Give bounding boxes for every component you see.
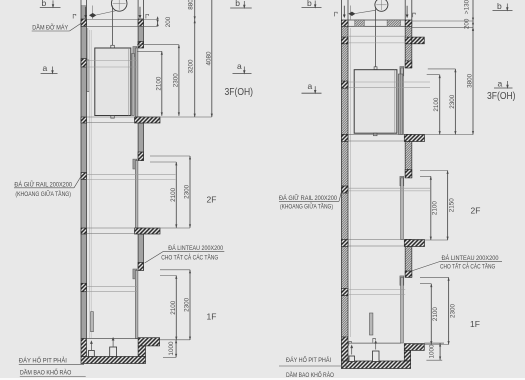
level arrow on left wall [84, 7, 87, 19]
reference lines 3F rail level (right drawing) [348, 82, 430, 87]
2F slab top extension (right drawing) [412, 239, 448, 241]
counterweight [87, 60, 89, 92]
svg-text:2300: 2300 [449, 94, 456, 109]
dimension 2100 (2F right drawing) [430, 176, 439, 240]
3F slab block on left wall [81, 117, 87, 123]
1F door linteau block [138, 263, 143, 271]
guide rail in pit (right drawing) [370, 313, 373, 335]
svg-text:2F: 2F [471, 206, 481, 216]
dimension 3200 and 880 overall [188, 0, 196, 117]
buffer arrow 2 (right drawing) [374, 340, 377, 350]
reference lines below beam (right drawing) [348, 36, 405, 43]
elevator cab (right drawing) [354, 70, 397, 134]
2F floor slab (right drawing) [404, 240, 424, 247]
dimension 2100 (2F left drawing) [170, 162, 178, 228]
2F landing door (left drawing) [133, 159, 138, 228]
buffer 1 (left drawing) [89, 351, 95, 357]
svg-text:2F: 2F [207, 195, 217, 205]
machine beam top line [87, 19, 158, 21]
pit right wall [138, 346, 145, 357]
hoist point line (right drawing) [350, 6, 352, 21]
svg-text:2300: 2300 [183, 297, 190, 312]
2F slab lines across shaft (left drawing) [87, 228, 135, 234]
svg-text:b: b [497, 1, 502, 11]
3F landing door (right drawing) [400, 67, 404, 135]
pit right wall (right drawing) [404, 350, 410, 361]
svg-text:ĐÁ GIỮ RAIL 200X200: ĐÁ GIỮ RAIL 200X200 [14, 181, 72, 188]
svg-text:ĐÁ LINTEAU 200X200: ĐÁ LINTEAU 200X200 [442, 255, 499, 262]
3F slab lines across shaft (right drawing) [348, 134, 404, 141]
pit bottom extension (right drawing) [426, 359, 442, 361]
anchor line 2100 (1F) [160, 275, 176, 277]
section marker a right of right drawing [494, 78, 513, 89]
leader diamond to pulley [96, 11, 117, 16]
buffer 2 (right drawing) [373, 351, 380, 362]
reference lines 3F rail level [87, 61, 139, 68]
reference lines 1F rail level (right drawing) [348, 290, 405, 295]
level arrow on right wall [139, 7, 142, 19]
3F landing door (left drawing) [133, 47, 138, 118]
pulley sheave (right drawing) [375, 0, 388, 11]
label DAM DO MAY [32, 21, 81, 31]
pit floor slab (left drawing) [81, 357, 146, 364]
rail clip symbol right [146, 14, 149, 18]
rail clip symbol left [73, 14, 76, 18]
3F floor slab [135, 117, 161, 123]
section marker b left of left drawing [40, 0, 61, 8]
counterweight guide line [87, 28, 89, 60]
left shaft wall (left drawing) [81, 0, 87, 339]
anchor line 2300 (3F) [137, 44, 179, 46]
svg-text:4080: 4080 [205, 51, 212, 66]
svg-text:(KHOANG GIỮA TẦNG): (KHOANG GIỮA TẦNG) [15, 191, 71, 198]
dimension 3800 (overall right drawing) [466, 27, 474, 134]
reference lines 1F rail level [87, 287, 139, 292]
pit left wall (right drawing) [341, 337, 348, 361]
right shaft wall (left drawing) [138, 0, 143, 271]
2F slab block on right wall (right drawing) [405, 240, 412, 247]
rail support block (1F mid) on left wall [81, 283, 87, 291]
section marker b right of right drawing [493, 1, 513, 12]
pulley sheave (left drawing) [111, 0, 127, 11]
machine beam (right drawing) [348, 20, 405, 26]
svg-text:CHO TẤT CẢ CÁC TẦNG: CHO TẤT CẢ CÁC TẦNG [440, 263, 495, 270]
guide rails beside cab (right drawing) [398, 74, 403, 134]
support bracket (right drawing) [412, 37, 425, 44]
pit ledge (left drawing) [138, 338, 160, 346]
label DAM BAO KHO RAO (left drawing) [20, 367, 86, 377]
1F floor line across pit [87, 338, 139, 340]
cab hook [111, 45, 115, 48]
anchor line 2150 (2F right drawing) [420, 170, 448, 172]
label DAY HO PIT PHAI (right drawing) [279, 354, 347, 366]
buffer arrow 2 [112, 337, 115, 347]
dimension 4080 (overall left drawing) [205, 0, 213, 117]
cab bottom tab (right drawing) [374, 133, 378, 136]
label DA GIU RAIL 200X200 (right drawing) [279, 190, 342, 211]
section marker a right of left drawing [233, 61, 252, 75]
hoist cable (right drawing) [375, 7, 377, 67]
guide rail line (right drawing) [349, 28, 351, 337]
anchor line 2100 (2F right drawing) [420, 175, 431, 177]
guide rail in pit [91, 312, 94, 332]
svg-text:CHO TẤT CẢ CÁC TẦNG: CHO TẤT CẢ CÁC TẦNG [161, 254, 218, 261]
anchor line 2300 (2F) [150, 155, 190, 157]
left shaft wall (right drawing) [341, 0, 348, 337]
2F slab block on right wall [138, 228, 143, 234]
hoist point diamond [89, 13, 96, 18]
svg-text:200: 200 [165, 16, 172, 27]
right shaft wall (right drawing) [405, 0, 412, 277]
svg-text:3F(OH): 3F(OH) [487, 91, 516, 102]
cab hook (right drawing) [374, 67, 377, 70]
buffer r mark 2 [373, 339, 376, 343]
svg-text:b: b [42, 0, 47, 8]
2F slab lines across shaft (right drawing) [348, 240, 404, 247]
section marker a left of right drawing [302, 81, 322, 94]
3F slab block on left wall (right drawing) [341, 134, 348, 141]
buffer arrow 1 [90, 340, 93, 350]
buffer arrow 1 (right drawing) [350, 345, 353, 355]
svg-text:2100: 2100 [432, 307, 439, 322]
section marker b right of left drawing [230, 0, 252, 9]
dimension 1000 pit depth (left drawing) [168, 340, 177, 358]
label DAM BAO KHO RAO (right drawing) [286, 369, 349, 379]
svg-text:a: a [237, 61, 242, 71]
hoist cable [111, 6, 113, 46]
label DA LINTEAU 200X200 (right drawing) [412, 255, 503, 271]
label DA LINTEAU 200X200 (left drawing) [145, 245, 225, 263]
svg-text:3200: 3200 [188, 59, 195, 74]
dimension 2100 (3F left drawing) [155, 51, 163, 116]
rail support block (3F mid, right drawing) [341, 81, 348, 88]
label DA GIU RAIL 200X200 (KHOANG GIUA TANG) [14, 176, 81, 198]
svg-text:a: a [498, 78, 503, 88]
rail support block (3F mid) on left wall [81, 59, 87, 67]
rail clip symbol left (right drawing) [335, 12, 338, 16]
3F slab top extension (right drawing) [412, 134, 473, 136]
svg-text:2100: 2100 [170, 187, 177, 202]
anchor line 2300 (1F) [160, 269, 190, 271]
machine beam block on right wall (right drawing) [405, 20, 412, 26]
dimension 1000 pit depth (right drawing) [428, 343, 441, 360]
dimension 2300 (1F right drawing) [448, 277, 457, 344]
3F floor slab (right drawing) [404, 134, 424, 141]
hoist point line [91, 6, 93, 20]
svg-text:1000: 1000 [168, 341, 175, 356]
anchor line 2100 (3F right drawing) [427, 74, 440, 76]
svg-text:ĐÁ GIỮ RAIL 200X200: ĐÁ GIỮ RAIL 200X200 [279, 195, 338, 202]
svg-text:2300: 2300 [449, 303, 456, 318]
machine beam bottom line [87, 25, 158, 27]
svg-text:a: a [308, 81, 313, 91]
bottom margin strip [0, 378, 525, 380]
2F slab block on left wall (right drawing) [341, 240, 348, 247]
elevator cab (left drawing) [95, 48, 131, 116]
buffer 2 (left drawing) [110, 347, 117, 357]
reference lines 2F rail level [87, 174, 176, 179]
2F door linteau block [138, 152, 143, 161]
1F floor line across pit (right drawing) [348, 342, 401, 344]
svg-text:2300: 2300 [183, 184, 190, 199]
guide rail beside cab [132, 53, 134, 115]
1F landing door (left drawing) [133, 269, 138, 339]
machine beam block on left wall [81, 19, 87, 26]
rail clip symbol right (right drawing) [413, 13, 416, 17]
1F door linteau block (right drawing) [405, 271, 412, 277]
label DAY HO PIT PHAI (left drawing) [19, 355, 84, 365]
svg-text:1000: 1000 [428, 344, 435, 359]
dimension 200 / >130 (right drawing) [463, 0, 474, 31]
anchor line 2100 (1F right drawing) [420, 283, 431, 285]
ground line right of ledge [424, 342, 444, 344]
svg-text:3800: 3800 [466, 73, 473, 88]
svg-text:3F(OH): 3F(OH) [225, 87, 254, 98]
dimension 2150 (2F right drawing) [447, 171, 456, 241]
svg-text:2100: 2100 [170, 300, 177, 315]
svg-text:b: b [307, 0, 312, 8]
block below beam on left wall (right drawing) [341, 37, 348, 44]
section marker b left of right drawing [302, 0, 322, 9]
buffer 1 (right drawing) [349, 356, 355, 362]
2F door linteau block (right drawing) [405, 169, 412, 178]
2F slab block on left wall [81, 228, 87, 234]
1F landing door (right drawing) [400, 276, 404, 343]
level arrow on left wall (right drawing) [343, 6, 346, 18]
anchor line 2100 (2F) [150, 161, 176, 163]
hoist point diamond (right drawing) [348, 12, 355, 16]
pit bottom extension line [163, 356, 176, 358]
dimension 200 lines (beam, right drawing) [412, 21, 473, 27]
bracket block on right wall (right drawing) [405, 37, 412, 44]
pit ledge (right drawing) [404, 344, 424, 351]
3F slab block on right wall (right drawing) [405, 134, 412, 141]
anchor line 2100 (3F) [137, 50, 162, 52]
dimension 2300 (1F left drawing) [183, 270, 191, 340]
leader diamond to pulley (right drawing) [355, 10, 375, 13]
dimension 2300 (3F right drawing) [449, 69, 457, 135]
rail support block (2F mid, right drawing) [341, 186, 348, 193]
svg-text:2100: 2100 [432, 201, 439, 216]
machine beam block on right wall [138, 19, 143, 26]
cab bottom tab [111, 116, 115, 119]
pit left wall [81, 339, 87, 357]
2F floor slab [135, 228, 161, 234]
svg-text:(KHOANG GIỮA TẦNG): (KHOANG GIỮA TẦNG) [280, 204, 333, 211]
counterweight guide rails (left drawing) [89, 30, 91, 338]
3F slab block on right wall [138, 117, 143, 123]
svg-text:a: a [43, 63, 48, 73]
dimension 2100 (1F right drawing) [430, 284, 439, 345]
rail support block (1F mid, right drawing) [341, 288, 348, 295]
3F slab top extension line [144, 116, 212, 118]
dimension 2300 (3F left drawing) [172, 45, 180, 116]
2F landing door (right drawing) [400, 176, 404, 239]
3F slab lines across shaft (left drawing) [87, 117, 135, 123]
3F door linteau block [138, 41, 143, 48]
svg-text:1F: 1F [470, 319, 480, 329]
svg-text:880: 880 [188, 0, 195, 10]
svg-text:b: b [235, 0, 240, 8]
level arrow on right wall (right drawing) [406, 6, 409, 18]
svg-text:2100: 2100 [433, 97, 440, 112]
svg-text:ĐÁ LINTEAU 200X200: ĐÁ LINTEAU 200X200 [168, 245, 223, 252]
anchor line 2300 (1F right drawing) [420, 276, 449, 278]
anchor line 2300 (3F right drawing) [428, 68, 456, 70]
rail support block (2F mid) on left wall [81, 173, 87, 180]
svg-text:1F: 1F [207, 312, 217, 322]
svg-text:2100: 2100 [155, 76, 162, 91]
pit floor slab (right drawing) [341, 361, 410, 369]
svg-text:2150: 2150 [448, 198, 455, 213]
section marker a left of left drawing [41, 63, 58, 75]
buffer r mark 1 [349, 342, 352, 346]
dimension 2100 (1F left drawing) [170, 276, 178, 341]
reference lines 2F rail level (right drawing) [348, 188, 430, 191]
dimension 2300 (2F left drawing) [183, 156, 191, 228]
1F floor extension (right drawing) [412, 344, 449, 346]
svg-text:>130: >130 [463, 0, 470, 14]
dimension 2100 (3F right drawing) [433, 75, 441, 135]
dimension 200 (beam depth, left drawing) [156, 16, 172, 27]
svg-text:200: 200 [463, 18, 470, 29]
machine beam block on left wall (right drawing) [341, 20, 348, 26]
svg-text:2300: 2300 [172, 73, 179, 88]
2F slab top extension line [144, 227, 190, 229]
3F door linteau block (right drawing) [405, 61, 412, 68]
1F floor extension line [160, 339, 190, 341]
